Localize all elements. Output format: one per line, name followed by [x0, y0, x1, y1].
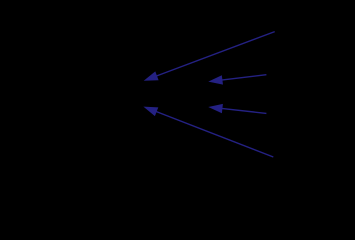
arrow 2 head: [208, 75, 223, 84]
diagram: four navy arrows converging on black background: [0, 0, 355, 189]
arrow 3 head: [208, 104, 223, 113]
arrow 2 shaft: [220, 75, 266, 81]
arrow 4 head: [143, 107, 158, 117]
arrow 1 head: [144, 71, 159, 80]
arrow 3 shaft: [220, 108, 266, 113]
arrow 1 shaft: [155, 32, 275, 77]
arrow 4 shaft: [155, 111, 273, 157]
